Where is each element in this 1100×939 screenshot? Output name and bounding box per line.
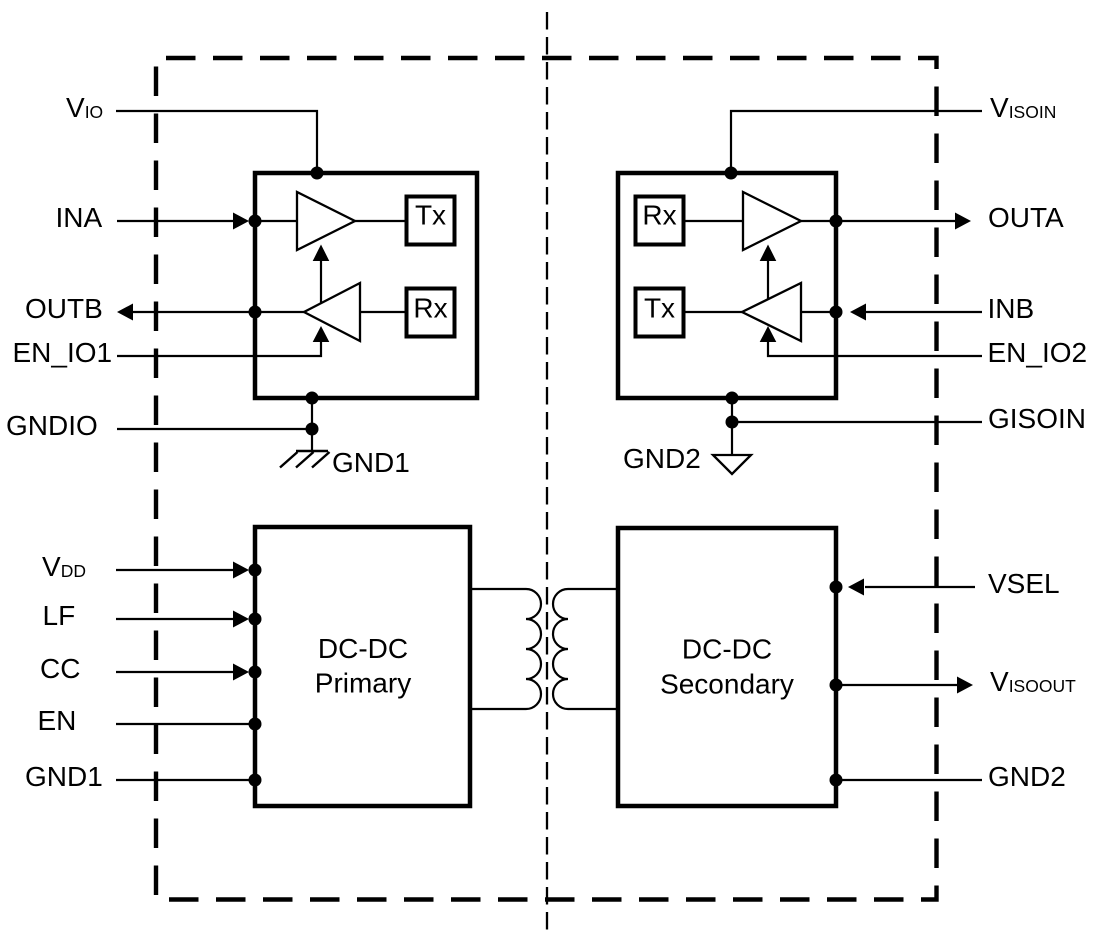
wire VISOOUT bbox=[836, 684, 958, 686]
wire INA (label to block edge) bbox=[117, 220, 234, 222]
junction dot LF bbox=[249, 613, 262, 626]
junction dot OUTB at block edge bbox=[249, 306, 262, 319]
wire INB inside block bbox=[801, 311, 836, 313]
junction dot GND on right block bottom bbox=[726, 392, 739, 405]
wire buffer A output to Tx box bbox=[355, 220, 406, 222]
DC-DC primary block bbox=[255, 527, 470, 806]
arrowhead EN_IO1 (pointing up into receiver B) bbox=[313, 326, 330, 342]
svg-text:GND1: GND1 bbox=[25, 761, 103, 792]
junction dot GND2 pin bbox=[830, 774, 843, 787]
wire INA inside block to buffer input bbox=[255, 220, 297, 222]
svg-text:DC-DC: DC-DC bbox=[318, 633, 408, 664]
wire INB triangle output to Tx box bbox=[684, 311, 742, 313]
Rx block (channel B) bbox=[407, 289, 455, 337]
junction dot OUTA at block edge bbox=[830, 215, 843, 228]
wire OUTB inside block bbox=[255, 311, 304, 313]
wire INB (label to arrow) bbox=[865, 311, 982, 313]
ground GND1 (earth symbol with hatches) bbox=[280, 451, 330, 468]
transformer secondary winding bbox=[553, 589, 617, 709]
junction dot GND on block bottom bbox=[306, 392, 319, 405]
svg-text:DC-DC: DC-DC bbox=[682, 634, 772, 665]
wire VDD bbox=[116, 569, 234, 571]
wire OUTB (block edge to arrow) bbox=[132, 311, 255, 313]
svg-text:Primary: Primary bbox=[315, 668, 411, 699]
svg-text:Tx: Tx bbox=[644, 293, 675, 324]
wire buffer out to block edge bbox=[801, 220, 836, 222]
junction dot VSEL bbox=[830, 581, 843, 594]
svg-text:OUTB: OUTB bbox=[25, 293, 103, 324]
junction dot GND1 pin bbox=[249, 774, 262, 787]
junction dot INA at block edge bbox=[249, 215, 262, 228]
svg-text:CC: CC bbox=[40, 653, 80, 684]
svg-text:GND2: GND2 bbox=[988, 761, 1066, 792]
arrowhead VSEL (pointing left) bbox=[848, 579, 864, 596]
svg-text:Rx: Rx bbox=[413, 293, 447, 324]
wire VSEL bbox=[865, 586, 975, 588]
Tx block (channel A) bbox=[407, 197, 455, 245]
arrowhead OUTB (pointing left) bbox=[117, 304, 133, 321]
svg-text:EN_IO1: EN_IO1 bbox=[13, 337, 113, 368]
wire Rx box to receiver B input bbox=[360, 311, 406, 313]
wire OUTA (block to arrow) bbox=[836, 220, 956, 222]
receiver B (triangle, Rx to OUTB) bbox=[304, 283, 360, 341]
wire Rx box to buffer input bbox=[684, 220, 743, 222]
wire LF bbox=[116, 618, 234, 620]
svg-text:INB: INB bbox=[988, 293, 1035, 324]
svg-text:GND1: GND1 bbox=[332, 447, 410, 478]
junction dot INB at block edge bbox=[830, 306, 843, 319]
svg-text:EN: EN bbox=[38, 705, 77, 736]
junction dot CC bbox=[249, 666, 262, 679]
arrowhead EN_IO2 (pointing up into receiver) bbox=[760, 326, 777, 342]
arrowhead INB (pointing left) bbox=[850, 304, 866, 321]
svg-text:GNDIO: GNDIO bbox=[6, 410, 98, 441]
wire enable of output buffer (right, from receiver top edge) bbox=[767, 259, 769, 300]
svg-text:INA: INA bbox=[56, 202, 103, 233]
wire GND2 pin bbox=[836, 779, 982, 781]
wire CC bbox=[116, 671, 234, 673]
Rx block (channel A, right side) bbox=[636, 197, 684, 245]
right I/O channel block U2 bbox=[618, 173, 836, 398]
svg-text:VSEL: VSEL bbox=[988, 568, 1060, 599]
DC-DC secondary block bbox=[618, 528, 836, 806]
isolation barrier (vertical dashed line) bbox=[546, 12, 548, 932]
wire EN_IO2 (label to corner, up into receiver) bbox=[768, 340, 982, 356]
wire block bottom to ground GND1 bbox=[311, 398, 313, 451]
arrowhead VDD bbox=[233, 562, 249, 579]
arrowhead LF bbox=[233, 611, 249, 628]
junction dot VISOIN on block top bbox=[725, 167, 738, 180]
buffer A (triangle, INA to Tx) bbox=[297, 192, 355, 250]
ground GND2 (open triangle symbol) bbox=[713, 455, 751, 474]
transformer primary winding bbox=[470, 589, 541, 709]
wire EN_IO1 (label to corner, up into receiver B) bbox=[117, 340, 321, 356]
svg-text:LF: LF bbox=[43, 600, 76, 631]
svg-text:Rx: Rx bbox=[642, 200, 676, 231]
arrowhead INA into block bbox=[233, 213, 249, 230]
svg-text:GND2: GND2 bbox=[623, 443, 701, 474]
svg-text:OUTA: OUTA bbox=[988, 202, 1064, 233]
arrowhead CC bbox=[233, 664, 249, 681]
junction dot VISOOUT bbox=[830, 679, 843, 692]
svg-text:Secondary: Secondary bbox=[660, 669, 794, 700]
junction dot EN bbox=[249, 718, 262, 731]
receiver B in (triangle pointing left, INB to Tx) bbox=[742, 283, 801, 341]
junction dot VDD bbox=[249, 564, 262, 577]
arrowhead OUTA (pointing right) bbox=[955, 213, 971, 230]
wire GND1 pin bbox=[116, 779, 255, 781]
Tx block (channel B, right side) bbox=[636, 289, 684, 337]
junction dot VIO on block top bbox=[311, 167, 324, 180]
package outline (dashed box) bbox=[156, 58, 937, 900]
svg-text:Tx: Tx bbox=[415, 200, 446, 231]
arrowhead enable of buffer A (pointing up) bbox=[313, 245, 330, 262]
left I/O channel block U1 bbox=[255, 173, 477, 398]
wire GNDIO (label to ground stub) bbox=[117, 428, 312, 430]
wire enable of buffer A (from receiver B top edge) bbox=[320, 259, 322, 304]
arrowhead enable of output buffer (pointing up) bbox=[760, 245, 777, 262]
wire EN bbox=[116, 723, 255, 725]
wire VISOIN net (horizontal + corner down to block top) bbox=[731, 111, 982, 173]
wire GISOIN (ground stub to label) bbox=[732, 421, 982, 423]
wire block bottom to ground GND2 bbox=[731, 398, 733, 455]
buffer A out (triangle, Rx to OUTA) bbox=[743, 192, 801, 250]
svg-text:GISOIN: GISOIN bbox=[988, 403, 1086, 434]
arrowhead VISOOUT (pointing right) bbox=[957, 677, 973, 694]
junction dot GISOIN bbox=[726, 416, 739, 429]
junction dot GNDIO bbox=[306, 423, 319, 436]
wire VIO net (horizontal + corner down to block top) bbox=[116, 111, 317, 173]
svg-text:EN_IO2: EN_IO2 bbox=[988, 337, 1088, 368]
